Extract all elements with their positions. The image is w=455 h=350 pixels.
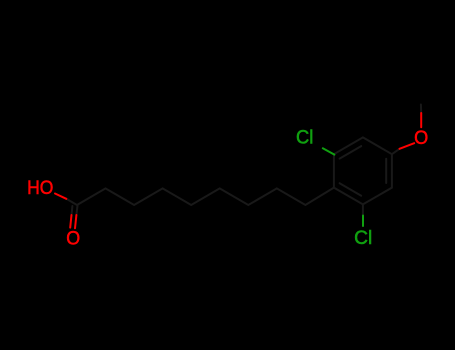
wire: green half of ring-Cl bond (top-left) [323,148,335,154]
wire: alkyl chain zigzag C1..C9 to ring (carbon skeleton, near-black) [77,188,334,205]
wire: aromatic inner double bond top-left side [340,146,362,159]
wire: C1=O double bond right line dark half [76,206,77,216]
wire: red half of O-CH3 bond [420,113,422,127]
wire: C1=O double bond right line red half [75,215,76,228]
wire: dark half of HO-C1 bond [66,199,77,205]
svg-text:Cl: Cl [296,128,313,149]
svg-text:Cl: Cl [354,228,372,249]
svg-text:O: O [66,228,80,249]
svg-text:HO: HO [27,178,53,199]
node ring: benzene hexagon outline (near-black) [334,137,392,204]
wire: dark half of ring-Cl bond (bottom) [362,204,364,215]
wire: C1=O double bond left line dark half [71,206,74,215]
svg-text:O: O [414,128,428,149]
wire: aromatic inner double bond right side [385,159,387,183]
wire: aromatic inner double bond bottom-left side [340,183,362,196]
wire: red half of HO-C1 bond (near O) [55,194,66,199]
wire: dark half of ring-O bond (methoxy) [392,149,400,154]
wire: C1=O double bond left line red half [70,215,71,228]
wire: dark half of O-CH3 bond [420,105,422,114]
wire: green half of ring-Cl bond (bottom) [362,216,364,227]
wire: red half of ring-O bond (methoxy) [400,143,415,149]
